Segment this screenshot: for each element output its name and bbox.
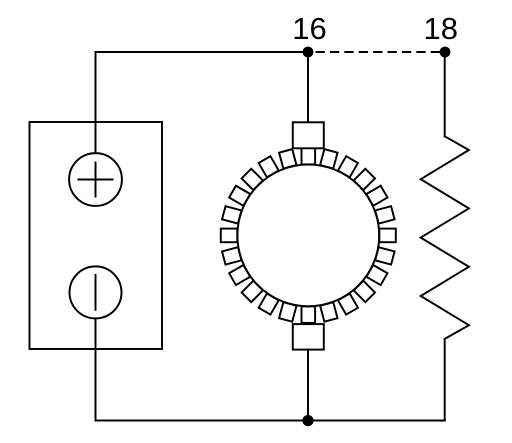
wire: vertical from node 18 down to resistor [444, 52, 446, 136]
battery negative terminal circle [70, 266, 122, 318]
motor M body circle [237, 165, 379, 307]
wire: left vertical from battery negative terminal to bottom wire [95, 318, 97, 420]
motor M commutator teeth [221, 148, 396, 323]
svg-text:16: 16 [292, 11, 326, 46]
wire: vertical from resistor bottom to bottom wire [444, 339, 446, 421]
resistor R zigzag [421, 136, 469, 339]
plus sign vertical stroke [95, 163, 97, 197]
wire: left vertical from top wire into battery positive terminal [95, 52, 97, 153]
wire: vertical from node 16 down to motor top terminal [307, 52, 309, 122]
node 18 junction dot [440, 47, 451, 58]
motor M top terminal block [293, 122, 324, 148]
plus sign horizontal stroke [79, 179, 113, 181]
wire: top horizontal from battery to node 16 [96, 51, 309, 53]
motor M bottom terminal block [293, 324, 324, 350]
svg-text:18: 18 [424, 11, 458, 46]
wire: bottom horizontal [96, 420, 445, 422]
dashed wire between node 16 and node 18 [317, 51, 446, 53]
battery positive terminal circle [69, 153, 122, 206]
negative terminal bar [95, 275, 97, 310]
bottom junction node dot [302, 415, 313, 426]
node 16 junction dot [303, 47, 314, 58]
wire: vertical from motor bottom terminal to bottom junction [307, 350, 309, 421]
battery outline box [30, 122, 163, 349]
